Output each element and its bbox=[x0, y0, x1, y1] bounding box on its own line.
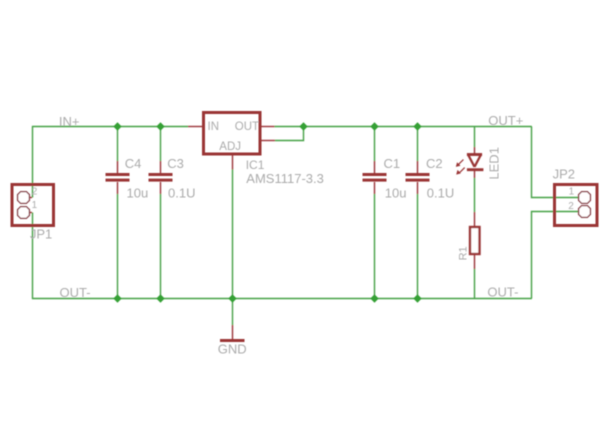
svg-text:ADJ: ADJ bbox=[219, 141, 241, 153]
svg-text:C4: C4 bbox=[125, 156, 142, 171]
svg-text:0.1U: 0.1U bbox=[168, 185, 195, 200]
svg-text:10u: 10u bbox=[385, 185, 407, 200]
svg-text:AMS1117-3.3: AMS1117-3.3 bbox=[246, 171, 324, 186]
svg-text:IN+: IN+ bbox=[59, 114, 80, 129]
svg-text:R1: R1 bbox=[457, 246, 469, 260]
svg-text:10u: 10u bbox=[127, 185, 149, 200]
svg-text:OUT-: OUT- bbox=[60, 285, 91, 300]
svg-text:LED1: LED1 bbox=[487, 147, 502, 180]
svg-text:JP1: JP1 bbox=[30, 226, 52, 241]
svg-text:C2: C2 bbox=[426, 156, 443, 171]
svg-text:2: 2 bbox=[568, 201, 574, 212]
svg-text:0.1U: 0.1U bbox=[427, 185, 454, 200]
svg-text:2: 2 bbox=[32, 187, 38, 198]
svg-text:JP2: JP2 bbox=[553, 167, 575, 182]
svg-text:OUT-: OUT- bbox=[487, 285, 518, 300]
svg-text:OUT+: OUT+ bbox=[488, 113, 523, 128]
svg-text:IN: IN bbox=[208, 121, 220, 133]
svg-text:C3: C3 bbox=[167, 156, 184, 171]
svg-text:OUT: OUT bbox=[235, 121, 259, 133]
svg-text:C1: C1 bbox=[384, 156, 401, 171]
svg-text:GND: GND bbox=[218, 342, 247, 357]
svg-text:1: 1 bbox=[569, 187, 575, 198]
svg-text:1: 1 bbox=[32, 200, 38, 211]
